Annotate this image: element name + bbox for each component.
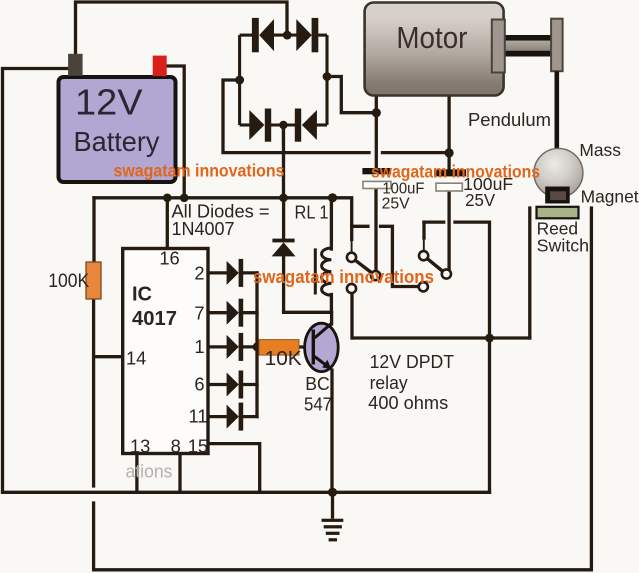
svg-text:25V: 25V — [465, 190, 495, 210]
diode bridge D-C (bottom-left, cathode right) — [249, 109, 271, 142]
relay coil RL1 core bar — [314, 248, 317, 294]
relay contact circle C5 (pole2 common) — [442, 269, 451, 278]
motor shaft gray middle — [497, 41, 553, 52]
diode bridge D-B (top-right, cathode right) — [296, 18, 318, 52]
wire diode D7 cathode to bus — [243, 311, 257, 314]
svg-text:Pendulum: Pendulum — [468, 109, 551, 130]
diode output bus — [255, 273, 258, 417]
capacitor C1 plate bottom — [363, 181, 391, 188]
battery B1 body — [59, 77, 176, 182]
wire +rail corner down to 100K — [92, 198, 95, 262]
stub below bridge bottom node — [282, 125, 285, 145]
flyback diode D6f across relay coil — [272, 239, 296, 257]
svg-text:4017: 4017 — [132, 308, 177, 330]
wire IC pin7 stub — [208, 311, 227, 314]
svg-text:2: 2 — [194, 263, 204, 284]
svg-text:400 ohms: 400 ohms — [368, 393, 448, 413]
svg-text:25V: 25V — [382, 196, 411, 213]
svg-text:1: 1 — [194, 336, 204, 357]
pendulum mass ball — [534, 148, 583, 197]
wire IC pin6 stub — [208, 383, 227, 386]
IC U1 4017 box — [123, 249, 208, 454]
relay contact circle C6 (pole2 bottom throw) — [419, 282, 428, 291]
motor coupler right (pendulum pivot) — [551, 19, 563, 71]
wire +rail end to relay pole1 top contact — [333, 198, 352, 227]
relay coil RL1 windings — [322, 248, 332, 295]
svg-text:11: 11 — [189, 406, 208, 427]
+12V rail — [94, 196, 333, 199]
relay contact circle C2 (pole1 common) — [371, 271, 380, 280]
wire battery negative to top rail to bridge top — [76, 2, 288, 54]
ground rail — [3, 491, 490, 494]
wire IC pin13 down to ground rail — [135, 455, 138, 492]
junction +rail / pin16 — [163, 194, 172, 203]
relay contact circle C3 (pole1 bottom throw) — [347, 284, 356, 293]
svg-text:Switch: Switch — [537, 236, 590, 256]
svg-text:swagatam innovations: swagatam innovations — [371, 162, 540, 182]
ground symbol — [322, 519, 344, 542]
junction bridge left node — [235, 76, 244, 85]
wire transistor emitter down to ground junction — [330, 370, 333, 492]
svg-text:547: 547 — [304, 395, 332, 415]
junction bridge bottom node — [279, 121, 287, 129]
svg-text:14: 14 — [126, 348, 146, 369]
wire IC pin15 right and down to ground rail — [208, 444, 260, 491]
junction motor pin1 / bridge right — [372, 108, 381, 117]
wire pole2 top contact tee — [422, 222, 425, 238]
wire cap1 to relay contact C2 — [374, 189, 377, 272]
wire motor pin1 down to cap1 — [375, 96, 378, 168]
wire transistor collector up to coil junction — [330, 312, 333, 324]
junction motor pin2 / bridge left — [445, 148, 454, 157]
svg-text:1N4007: 1N4007 — [172, 218, 235, 239]
wire coil bottom — [330, 295, 333, 313]
relay contact circle C4 (pole2 top throw) — [419, 251, 428, 260]
svg-text:12V: 12V — [75, 82, 143, 123]
capacitor C2 plate top — [434, 169, 466, 176]
wire pole1 top contact lead — [350, 226, 353, 239]
bridge rectifier square — [240, 35, 327, 125]
junction +rail / bridge bottom — [279, 194, 288, 203]
svg-text:swagatam innovations: swagatam innovations — [114, 161, 285, 181]
svg-text:100K: 100K — [48, 271, 89, 292]
resistor R1 100K — [86, 262, 101, 299]
wire pin16 from rail — [166, 198, 169, 249]
svg-text:8: 8 — [171, 436, 181, 457]
junction +rail end / relay coil — [328, 193, 337, 202]
diode bridge D-A (top-left, cathode left) — [252, 18, 274, 52]
relay contact circle C1 (pole1 top throw) — [347, 253, 356, 262]
svg-text:swagatam innovations: swagatam innovations — [253, 266, 434, 287]
wire diode D6 cathode to bus — [243, 383, 257, 386]
svg-text:13: 13 — [130, 436, 150, 457]
junction +rail / battery positive — [180, 194, 189, 203]
wire 100K line resumes below ground rail to bottom wire — [94, 208, 592, 570]
svg-text:16: 16 — [159, 248, 179, 269]
svg-text:Motor: Motor — [396, 21, 467, 55]
svg-text:12V DPDT: 12V DPDT — [370, 352, 455, 372]
svg-text:6: 6 — [194, 374, 204, 395]
capacitor C2 plate bottom — [436, 183, 462, 191]
svg-text:10K: 10K — [265, 348, 303, 370]
transistor Q1 BC547 — [305, 323, 339, 371]
battery terminal positive (red) — [153, 56, 167, 77]
relay arm pole1 — [355, 260, 372, 273]
svg-text:relay: relay — [370, 373, 408, 393]
wire diode D2 cathode to bus — [243, 271, 257, 274]
motor shaft bar bottom — [497, 51, 553, 57]
wire ground link y338 pole1 bottom contact to reed left — [353, 336, 530, 339]
junction diode bus / 10K — [253, 343, 262, 352]
motor M1 body — [365, 3, 504, 96]
diode D2 (pin2) — [227, 259, 244, 287]
wire pole2 top to reed/ground junction (hops cap2 wire) — [455, 222, 490, 333]
diode D11 (pin11) — [227, 403, 244, 431]
wire pole1 top tee to pole2 bottom contact (hops wire) — [352, 225, 368, 228]
wire junction down to ground rail end — [488, 338, 491, 492]
wire pole1 bottom contact lead — [350, 293, 353, 338]
wire IC pin11 stub — [208, 415, 227, 418]
diode D1 (pin1) — [227, 333, 244, 361]
wire reed left down — [528, 208, 531, 338]
wire diode D1 cathode to bus — [243, 345, 257, 348]
relay arm pole2 — [427, 259, 443, 272]
battery terminal negative — [68, 54, 83, 76]
svg-text:ations: ations — [126, 461, 173, 482]
junction ground wire / reed branch — [485, 334, 494, 343]
junction bridge top node — [283, 31, 292, 40]
reed switch body — [537, 207, 579, 219]
capacitor C1 plate top — [362, 168, 391, 174]
wire flyback diode bottom — [282, 256, 285, 312]
wire battery negative to left vertical — [3, 69, 70, 492]
wire ground stub below junction — [331, 492, 334, 517]
wire coil bottom junction horizontal — [284, 311, 332, 314]
wire diode D11 cathode to bus — [243, 415, 257, 418]
svg-text:BC: BC — [305, 374, 330, 394]
wire IC pin8 down to ground rail — [178, 455, 181, 492]
svg-text:7: 7 — [194, 303, 204, 324]
wire battery positive down to +rail — [166, 66, 184, 196]
wire to IC pin 14 — [94, 355, 123, 358]
pendulum rod — [554, 71, 559, 150]
svg-text:Mass: Mass — [579, 140, 621, 160]
wire IC pin1 stub — [208, 345, 227, 348]
svg-text:15: 15 — [188, 436, 208, 457]
wire bridge left node to motor wire 2 (hops motor wire 1) — [223, 80, 369, 153]
wire coil top from rail dot — [330, 198, 333, 249]
magnet on mass — [545, 187, 570, 204]
resistor R2 10K — [259, 340, 299, 356]
wire motor pin2 down to cap2 — [447, 96, 450, 169]
svg-text:RL 1: RL 1 — [295, 203, 329, 223]
wire flyback diode top — [282, 198, 285, 239]
diode bridge D-D (bottom-right, cathode left) — [295, 109, 317, 142]
motor coupler left — [492, 20, 505, 73]
wire bridge right node to motor pin1 — [327, 77, 376, 113]
svg-text:Magnet: Magnet — [581, 187, 639, 207]
svg-text:Battery: Battery — [74, 126, 160, 157]
wire IC pin2 stub — [208, 271, 227, 274]
wire bridge bottom node to +rail — [282, 126, 285, 197]
motor shaft bar top — [497, 35, 553, 41]
diode D7 (pin7) — [227, 299, 244, 327]
wire cap2 to relay contact C5 — [447, 191, 450, 269]
wire 10K to transistor base — [299, 345, 312, 348]
junction ground rail / emitter — [328, 488, 337, 497]
wire 100K bottom down with pin14 tee — [92, 299, 95, 486]
diode D6 (pin6) — [227, 371, 244, 399]
junction bridge right node — [323, 72, 332, 81]
svg-text:IC: IC — [132, 284, 152, 306]
